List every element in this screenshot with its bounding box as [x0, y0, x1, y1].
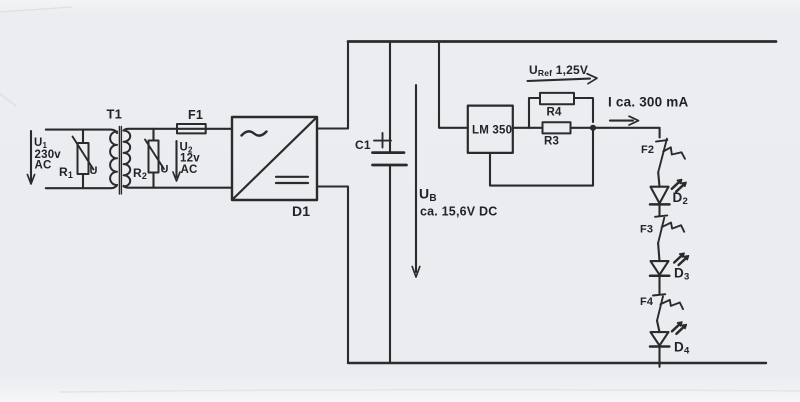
svg-text:R4: R4: [547, 107, 563, 119]
wire LM350 adj loop: [490, 131, 593, 186]
svg-text:ca. 15,6V DC: ca. 15,6V DC: [420, 205, 497, 219]
wire secondary top: [124, 129, 232, 131]
fuse breaker F3: [655, 215, 684, 243]
paper crease top-left: [0, 7, 72, 12]
LED D3: [650, 261, 669, 276]
paper crease left edge: [0, 94, 16, 106]
wire F3 to D3: [658, 243, 659, 261]
paper crease bottom: [60, 390, 800, 392]
light arrows D3: [674, 253, 688, 265]
wire secondary bottom: [124, 186, 232, 188]
DC equals symbol: [276, 177, 308, 183]
svg-text:U: U: [90, 165, 98, 177]
svg-text:U: U: [161, 164, 169, 176]
fuse breaker F2: [656, 139, 685, 173]
resistor R3: [543, 122, 571, 133]
wire F2 to D2: [658, 172, 659, 186]
svg-text:AC: AC: [35, 160, 52, 172]
wire R4 branch left: [529, 98, 540, 128]
bottom rail wire: [348, 362, 766, 364]
svg-text:F3: F3: [640, 224, 653, 236]
wire D1 to bottom rail: [317, 187, 348, 364]
wire D2 to F3: [658, 204, 660, 215]
wire junction to F2: [593, 128, 660, 138]
resistor R4: [540, 93, 574, 104]
plus sign: [374, 133, 391, 148]
LED D4: [650, 332, 669, 346]
secondary winding: [124, 131, 131, 187]
wire D3 to F4: [658, 276, 660, 294]
LED D2: [650, 187, 670, 205]
wire primary top: [46, 130, 117, 133]
AC tilde symbol: [242, 131, 267, 135]
wire R4 branch right: [574, 98, 593, 122]
svg-text:I ca. 300 mA: I ca. 300 mA: [608, 95, 688, 110]
svg-text:URef 1,25V: URef 1,25V: [529, 63, 588, 78]
wire LM350 output to R3: [513, 127, 543, 129]
regulator U1 LM350: [468, 106, 513, 153]
label U1 230V AC: [34, 137, 61, 172]
capacitor C1: [373, 42, 407, 364]
bridge rectifier D1: [232, 117, 317, 200]
fuse breaker F4: [653, 294, 683, 320]
wire R3 to junction: [571, 127, 594, 129]
wire F4 to D4: [657, 321, 660, 333]
svg-text:F2: F2: [641, 144, 654, 156]
top rail wire: [348, 40, 776, 43]
svg-text:LM 350: LM 350: [472, 125, 512, 137]
light arrows D4: [672, 322, 686, 334]
svg-text:F4: F4: [640, 296, 654, 308]
svg-text:T1: T1: [107, 107, 123, 122]
measurement arrow U2: [173, 141, 180, 181]
arrow I current: [610, 116, 639, 125]
wire top rail to LM350 input: [439, 42, 468, 128]
measurement arrow UB: [412, 85, 420, 277]
primary winding: [110, 132, 117, 186]
light arrows D2: [672, 180, 686, 192]
transformer T1: [110, 127, 130, 195]
svg-text:D1: D1: [292, 203, 310, 219]
node junction R3 R4 output: [590, 125, 596, 131]
varistor R2: [145, 129, 164, 188]
wire D4 to bottom rail: [658, 347, 660, 367]
measurement arrow U1: [27, 131, 34, 184]
svg-text:AC: AC: [181, 164, 198, 176]
wire primary bottom: [46, 185, 117, 188]
svg-text:C1: C1: [355, 138, 371, 152]
varistor R1: [73, 130, 94, 189]
arrow URef: [528, 74, 598, 84]
core lines: [119, 127, 121, 195]
wire D1 to top rail: [317, 42, 348, 129]
svg-text:12v: 12v: [180, 153, 200, 165]
svg-text:R3: R3: [544, 136, 559, 148]
svg-text:F1: F1: [188, 108, 203, 122]
fuse F1: [177, 124, 206, 133]
label U2 12V AC: [180, 142, 201, 177]
